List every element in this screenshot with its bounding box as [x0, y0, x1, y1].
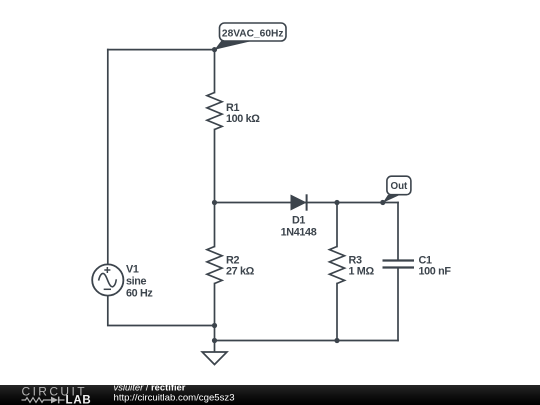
node junction top (28VAC) [212, 47, 217, 52]
svg-text:V1: V1 [126, 264, 139, 276]
wire R3 top lead [336, 203, 338, 247]
wire C1 bottom lead [397, 268, 399, 341]
wire middle horizontal (diode row) [215, 202, 399, 204]
wire R1 top lead [214, 50, 216, 93]
resistor R3 [330, 247, 375, 284]
wire R3 bottom lead [336, 284, 338, 341]
wire left vertical [107, 50, 109, 265]
node junction bottom-left [212, 323, 217, 328]
svg-text:60 Hz: 60 Hz [126, 288, 153, 300]
wire ground vertical [214, 326, 216, 353]
diode D1 [281, 194, 317, 238]
wire R1 bottom lead [214, 130, 216, 203]
wire C1 top lead [397, 203, 399, 261]
node junction R3 top [334, 200, 339, 205]
net label 28VAC_60Hz [215, 23, 287, 50]
svg-text:100 kΩ: 100 kΩ [226, 113, 260, 125]
svg-text:1N4148: 1N4148 [281, 227, 317, 239]
svg-text:Out: Out [390, 181, 408, 192]
node junction R1/R2/diode [212, 200, 217, 205]
wire top horizontal [108, 49, 215, 51]
svg-text:100 nF: 100 nF [419, 266, 452, 278]
capacitor C1 [383, 255, 452, 278]
svg-text:LAB: LAB [66, 394, 92, 405]
voltage source V1 [92, 264, 153, 300]
wire R2 bottom lead [214, 284, 216, 326]
svg-text:http://circuitlab.com/cge5sz3: http://circuitlab.com/cge5sz3 [114, 392, 235, 403]
node junction ground [212, 338, 217, 343]
resistor R2 [207, 247, 255, 284]
svg-text:D1: D1 [292, 215, 305, 227]
svg-text:sine: sine [126, 276, 147, 288]
wire R2 top lead [214, 203, 216, 247]
svg-text:27 kΩ: 27 kΩ [226, 266, 255, 278]
svg-text:vsluiter / rectifier: vsluiter / rectifier [114, 385, 186, 393]
node junction R3 bottom [334, 338, 339, 343]
resistor R1 [207, 93, 260, 130]
svg-text:1 MΩ: 1 MΩ [349, 266, 375, 278]
wire V1 bottom to corner [108, 296, 215, 326]
ground [202, 352, 227, 365]
wire bottom horizontal [215, 340, 399, 342]
svg-text:28VAC_60Hz: 28VAC_60Hz [222, 28, 284, 39]
node Out [380, 200, 385, 205]
footer bar [0, 385, 540, 405]
CircuitLab logo [22, 385, 92, 405]
net label Out [383, 176, 411, 203]
